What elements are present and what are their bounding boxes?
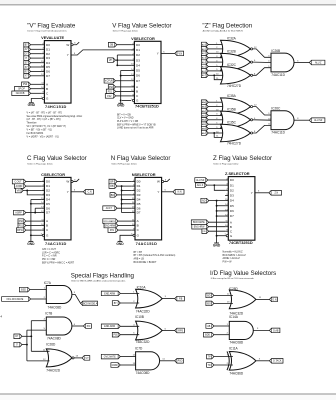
svg-text:D0: D0	[137, 180, 141, 184]
svg-text:ISO: ISO	[207, 303, 211, 305]
net tag AL4	[201, 60, 208, 65]
net tag ALU.NZ	[309, 118, 325, 123]
svg-text:C/R = C.OUT: C/R = C.OUT	[42, 249, 56, 251]
svg-text:74AC151D: 74AC151D	[136, 241, 158, 246]
svg-text:BT = BT: BT = BT	[134, 252, 143, 254]
wire	[209, 226, 226, 228]
wire bus	[121, 186, 123, 213]
net tag ENG.4RW	[192, 224, 209, 229]
wire	[117, 54, 131, 56]
wire	[117, 185, 132, 187]
wire unused input bus to ground	[120, 70, 122, 102]
svg-text:B: B	[137, 224, 139, 228]
net tag FFG.W/O.MATE	[2, 297, 31, 302]
svg-text:D7: D7	[136, 79, 140, 83]
NOR gate IC35C 74HC27D	[221, 121, 253, 146]
wire	[23, 190, 41, 192]
svg-text:FS0: FS0	[19, 221, 24, 223]
wire	[31, 62, 42, 64]
IC NSELECTOR 74AC151D	[131, 172, 161, 246]
junction	[26, 344, 28, 346]
junction	[213, 132, 215, 134]
svg-text:IC26B: IC26B	[271, 49, 280, 53]
wire	[31, 70, 42, 72]
svg-text:ARNE = ALUA.Z: ARNE = ALUA.Z	[223, 257, 241, 260]
wire output pin 6	[72, 325, 84, 327]
svg-text:Y: Y	[157, 52, 159, 56]
svg-text:IC28D: IC28D	[229, 287, 239, 291]
net tag Z.N	[269, 191, 282, 196]
junction	[26, 190, 28, 192]
svg-text:END.4RW: END.4RW	[105, 225, 116, 227]
net tag AL1	[201, 47, 208, 52]
wire	[121, 69, 132, 71]
svg-text:BP: BP	[110, 181, 114, 183]
wire	[26, 185, 41, 187]
wire	[217, 210, 226, 212]
net tag V.CPU6	[104, 78, 115, 83]
junction	[120, 99, 122, 101]
svg-text:Normally = ALUN.Z: Normally = ALUN.Z	[223, 251, 244, 254]
net tag D.AB	[269, 328, 280, 333]
svg-text:D7: D7	[230, 214, 234, 218]
svg-text:D0: D0	[230, 178, 234, 182]
net tag ALU.NZ	[195, 178, 208, 183]
svg-text:Y: Y	[67, 190, 69, 194]
wire	[214, 185, 225, 190]
net tag P.IN	[202, 229, 209, 234]
svg-text:BIT = V = DB: BIT = V = DB	[117, 114, 131, 116]
NOR gate IC32A 74HC27D	[221, 37, 253, 62]
svg-text:D3: D3	[137, 193, 141, 197]
wire	[31, 99, 42, 103]
svg-text:74CBT3251D: 74CBT3251D	[135, 104, 159, 109]
wire	[294, 119, 309, 121]
junction	[30, 335, 32, 337]
junction	[216, 205, 218, 207]
wire	[208, 57, 223, 59]
svg-text:Select N Flag Logic below: Select N Flag Logic below	[111, 162, 137, 165]
svg-text:Derive V flag result from Acc/: Derive V flag result from Acc/parameters	[27, 29, 67, 32]
svg-text:D0: D0	[136, 43, 140, 47]
net tag BT	[112, 301, 120, 306]
wire	[31, 234, 42, 236]
net tag FS0	[18, 219, 26, 224]
svg-text:BSD: BSD	[21, 289, 26, 291]
junction	[116, 64, 118, 66]
svg-text:VR: VR	[17, 190, 21, 192]
junction	[30, 234, 32, 236]
svg-text:74AC08D: 74AC08D	[48, 305, 63, 309]
wire	[214, 133, 223, 137]
svg-text:NA.DCB: NA.DCB	[16, 92, 25, 95]
net tag P.D	[83, 324, 91, 329]
wire	[26, 330, 28, 361]
svg-text:IC35B: IC35B	[227, 107, 236, 111]
junction	[121, 190, 123, 192]
svg-text:TD: TD	[208, 365, 211, 367]
wire	[120, 325, 139, 327]
svg-text:74AC02D: 74AC02D	[46, 368, 61, 372]
wire	[214, 356, 233, 358]
net tag RB	[109, 184, 117, 189]
wire	[115, 80, 131, 82]
svg-text:D1: D1	[136, 48, 140, 52]
svg-text:D3: D3	[46, 56, 50, 60]
wire	[209, 230, 226, 232]
XOR gate IC11A 74AC86D	[227, 346, 256, 375]
wire	[116, 55, 118, 65]
wire	[22, 344, 27, 346]
svg-text:D5: D5	[137, 202, 141, 206]
net tag END.4RW	[104, 223, 118, 228]
net tag P.B	[175, 296, 185, 301]
wire W output pin 6	[162, 181, 164, 183]
svg-text:CWR: CWR	[112, 365, 118, 367]
wire	[208, 44, 223, 46]
wire	[214, 75, 223, 79]
wire Y output pin 5 to VSELECTOR D1	[71, 50, 134, 55]
net tag BSD	[19, 287, 30, 292]
net tag ACC7	[103, 206, 117, 211]
svg-text:PS0: PS0	[23, 84, 28, 86]
svg-text:IC11A: IC11A	[229, 346, 238, 350]
wire	[122, 212, 132, 214]
net tag D.TACK	[269, 359, 283, 364]
svg-text:N Flag Value Selector: N Flag Value Selector	[111, 155, 171, 162]
svg-text:W: W	[66, 43, 69, 47]
svg-text:BD: BD	[111, 195, 115, 197]
junction	[213, 74, 215, 76]
AND gate IC7D 74AC08D	[135, 346, 160, 375]
wire output pin 6	[162, 330, 175, 332]
net tag RPS	[175, 328, 185, 333]
wire	[120, 235, 133, 241]
wire output pin 3	[72, 295, 81, 304]
svg-text:IC32A: IC32A	[227, 37, 237, 41]
wire	[217, 205, 226, 207]
net tag PSO	[175, 359, 184, 364]
svg-text:BSF & PFW = ARNE V = YT SOB YB: BSF & PFW = ARNE V = YT SOB YB	[117, 123, 156, 126]
net tag N.N	[173, 190, 184, 195]
wire	[120, 334, 139, 336]
svg-text:Y: Y	[251, 191, 253, 195]
wire	[122, 203, 132, 205]
svg-text:Y: Y	[67, 53, 69, 57]
svg-text:D7: D7	[46, 211, 50, 215]
wire	[30, 321, 32, 352]
svg-text:IC10A: IC10A	[137, 285, 147, 289]
net tag S7	[24, 60, 31, 65]
wire	[22, 335, 31, 337]
OR gate IC10A 74AC32D	[136, 285, 163, 313]
wire	[117, 64, 131, 66]
net tag ALU.Z	[196, 183, 207, 188]
svg-text:CLV = V = GND: CLV = V = GND	[117, 118, 134, 120]
svg-text:LAND does not set V as its an: LAND does not set V as its an ARR	[117, 127, 154, 130]
wire	[27, 360, 50, 362]
svg-text:74AC11D: 74AC11D	[271, 131, 285, 135]
svg-text:IC14A: IC14A	[229, 315, 239, 319]
wire	[26, 225, 41, 227]
junction	[216, 210, 218, 212]
net tag RP.W	[16, 228, 25, 233]
svg-text:AGRP: AGRP	[15, 211, 22, 214]
svg-text:Select Z Flag Logic below: Select Z Flag Logic below	[213, 162, 238, 165]
svg-text:V.CPU6: V.CPU6	[105, 81, 114, 83]
svg-text:B: B	[230, 225, 232, 229]
svg-text:Select C Flag Logic below: Select C Flag Logic below	[27, 162, 53, 165]
svg-text:N Bus except for BD or CLD fro: N Bus except for BD or CLD from microcod…	[211, 277, 255, 280]
svg-text:Therefore: Therefore	[27, 122, 38, 125]
junction	[34, 212, 36, 214]
svg-text:74AC11D: 74AC11D	[271, 73, 285, 77]
svg-text:D1: D1	[230, 183, 234, 187]
wire output pin 11	[256, 298, 270, 300]
svg-text:74HC151D: 74HC151D	[45, 104, 67, 109]
wire	[118, 229, 132, 231]
svg-text:BCD for NMOS, ARR and ANC undo: BCD for NMOS, ARR and ANC undocumented o…	[71, 280, 126, 283]
net tag BDD	[204, 332, 214, 337]
svg-text:74AC32D: 74AC32D	[136, 310, 151, 314]
net tag FS2	[105, 94, 115, 99]
junction	[216, 200, 218, 202]
wire	[209, 221, 226, 223]
net tag AL7	[201, 73, 208, 78]
svg-text:See www 6502 org/users/dieter/: See www 6502 org/users/dieter/a/achtung …	[27, 115, 83, 118]
svg-text:P.B: P.B	[113, 335, 117, 337]
OR gate IC28D 74AC32D	[229, 287, 256, 316]
wire	[120, 356, 135, 358]
svg-text:C.OUT: C.OUT	[14, 181, 22, 183]
svg-text:IC35C: IC35C	[227, 121, 237, 125]
net tag OB	[108, 42, 116, 47]
svg-text:D7: D7	[46, 74, 50, 78]
wire	[31, 92, 42, 94]
net tag AORD	[14, 184, 25, 189]
svg-text:BCD.MATE: BCD.MATE	[193, 221, 205, 224]
svg-text:74CBT3251D: 74CBT3251D	[229, 240, 253, 245]
net tag OVC.MATE	[101, 354, 120, 359]
net tag I7	[24, 56, 31, 61]
wire output pin 3	[256, 360, 270, 362]
wire	[208, 101, 223, 103]
wire	[217, 235, 227, 237]
net tag VP	[108, 58, 116, 63]
net tag BD	[206, 293, 214, 298]
svg-text:FS1: FS1	[19, 225, 24, 227]
wire	[253, 68, 271, 76]
svg-text:D6: D6	[46, 206, 50, 210]
wire	[214, 325, 229, 327]
net tag FS1	[18, 223, 26, 228]
wire	[208, 119, 223, 121]
svg-text:74AC08D: 74AC08D	[47, 337, 62, 341]
svg-text:BCD.MODE = BCDFT: BCD.MODE = BCDFT	[134, 262, 158, 264]
svg-text:BD: BD	[207, 295, 211, 297]
junction	[121, 199, 123, 201]
svg-text:FS0: FS0	[109, 87, 114, 89]
net tag AL6	[201, 69, 208, 74]
svg-text:D5: D5	[46, 65, 50, 69]
wire	[217, 215, 226, 217]
svg-text:LSR = C = ADRC: LSR = C = ADRC	[42, 251, 60, 254]
wire W output pin 6	[71, 44, 73, 46]
net tag A7	[24, 47, 31, 52]
wire	[31, 350, 49, 352]
svg-text:D6: D6	[137, 206, 141, 210]
svg-text:ALUNZ normally, ALUA.Z for BCD: ALUNZ normally, ALUA.Z for BCD NMOS	[203, 29, 244, 32]
wire	[253, 119, 271, 121]
svg-text:RB: RB	[110, 186, 114, 188]
svg-text:V = (A7 · B7 · R7) + (A7 · B7: V = (A7 · B7 · R7) + (A7 · B7 · R7)	[27, 111, 63, 114]
svg-text:P.W = W: P.W = W	[223, 262, 233, 264]
svg-text:SP.OP: SP.OP	[18, 89, 25, 91]
svg-text:IC7A: IC7A	[44, 281, 52, 285]
svg-text:RPS: RPS	[178, 330, 183, 332]
AND gate IC26C 74AC11D	[271, 107, 294, 135]
net tag ALU.Z	[309, 60, 325, 65]
svg-text:RP.W: RP.W	[17, 230, 24, 232]
wire	[208, 74, 223, 76]
net tag NA.DCB	[12, 91, 31, 96]
svg-text:D3: D3	[230, 194, 234, 198]
wire	[31, 48, 42, 50]
svg-text:VSELECTOR: VSELECTOR	[131, 36, 155, 41]
svg-text:D5: D5	[46, 202, 50, 206]
svg-text:D4: D4	[136, 63, 140, 67]
net tag AA4	[201, 118, 208, 123]
AND gate IC7A 74AC08D	[44, 281, 72, 309]
svg-text:GND: GND	[213, 243, 221, 247]
wire	[122, 190, 132, 192]
IC VSELECTOR 74CBT3251D	[131, 36, 161, 109]
wire	[208, 61, 223, 63]
wire	[26, 229, 41, 231]
wire output pin 11	[160, 360, 175, 362]
OR gate IC10B 74AC32D	[135, 315, 162, 344]
wire	[214, 294, 233, 296]
svg-text:V = (B7 · V0) + (B7 · V1): V = (B7 · V0) + (B7 · V1)	[27, 130, 53, 132]
wire	[31, 75, 42, 77]
svg-text:FS2: FS2	[107, 96, 112, 98]
svg-text:V0 = (R7 NOR Y7), V1 = (R7 AND: V0 = (R7 NOR Y7), V1 = (R7 AND Y7)	[27, 125, 67, 128]
svg-text:ENG.4RW: ENG.4RW	[194, 227, 206, 229]
wire	[208, 66, 223, 68]
svg-text:8210.MATE: 8210.MATE	[104, 220, 116, 223]
wire	[118, 225, 132, 227]
wire	[208, 52, 223, 54]
svg-text:P.IN: P.IN	[110, 230, 115, 232]
svg-text:D0: D0	[46, 180, 50, 184]
net tag AL0	[201, 42, 208, 47]
svg-text:PLP & RTI = V = DB: PLP & RTI = V = DB	[117, 121, 138, 123]
svg-text:ND: ND	[202, 200, 206, 202]
NOR gate IC32B 74HC27D	[221, 50, 253, 75]
wire	[115, 59, 131, 61]
wire W output pin 6	[71, 181, 73, 183]
AND gate IC14A 74AC08D	[229, 315, 253, 345]
svg-text:VP: VP	[109, 60, 113, 62]
svg-text:74AC86D: 74AC86D	[229, 371, 244, 375]
net tag PS0	[22, 82, 31, 87]
junction	[216, 235, 218, 237]
svg-text:GND: GND	[27, 242, 35, 246]
wire	[34, 208, 36, 212]
wire	[208, 106, 223, 108]
wire	[253, 61, 271, 63]
NOR gate IC35A 74HC27D	[221, 94, 253, 119]
svg-text:C.N: C.N	[88, 192, 92, 194]
wire Y output pin 5	[255, 192, 269, 194]
wire	[31, 203, 41, 205]
ground	[27, 241, 35, 245]
net tag V.N	[175, 51, 184, 56]
svg-text:D7: D7	[137, 211, 141, 215]
IC Z.SELECTOR 74CBT3251D	[224, 171, 254, 245]
junction	[213, 184, 215, 186]
wire	[208, 114, 223, 116]
wire	[209, 200, 225, 202]
svg-text:D2: D2	[230, 188, 234, 192]
svg-text:"V" Flag Evaluate: "V" Flag Evaluate	[27, 22, 76, 29]
wire	[120, 292, 139, 294]
net tag ND	[201, 198, 209, 203]
svg-text:W: W	[157, 180, 160, 184]
wire	[31, 320, 46, 322]
net tag Y7	[24, 74, 31, 79]
wire	[117, 44, 131, 46]
svg-text:VEVALUATE: VEVALUATE	[41, 35, 64, 40]
net tag AA3	[201, 113, 208, 118]
wire	[208, 123, 223, 125]
svg-text:P.IN: P.IN	[203, 231, 206, 233]
svg-text:PSO: PSO	[178, 361, 183, 363]
NOR gate IC26D 74AC02D	[46, 343, 74, 373]
svg-text:D1: D1	[46, 184, 50, 188]
svg-text:D5: D5	[230, 204, 234, 208]
svg-text:GND: GND	[116, 242, 124, 246]
svg-text:BSF & PFW = HINC C = ADRT: BSF & PFW = HINC C = ADRT	[42, 261, 75, 264]
svg-text:END.ARW: END.ARW	[104, 325, 116, 328]
svg-text:IC26D: IC26D	[46, 343, 56, 347]
AND gate IC26B 74AC11D	[271, 49, 294, 77]
wire	[294, 62, 309, 64]
wire output pin 3	[162, 298, 175, 300]
wire	[27, 191, 41, 195]
svg-text:ALU.Z: ALU.Z	[315, 61, 322, 64]
svg-text:74AC08D: 74AC08D	[136, 371, 151, 375]
wire	[31, 53, 42, 55]
svg-text:IC10B: IC10B	[135, 315, 144, 319]
wire	[214, 302, 233, 304]
wire	[27, 329, 46, 331]
svg-text:IC32B: IC32B	[227, 50, 236, 54]
wire	[31, 83, 42, 85]
svg-text:GND: GND	[117, 104, 125, 108]
junction	[121, 185, 123, 187]
net tag AL2	[201, 51, 208, 56]
net tag C.N	[83, 190, 93, 195]
junction	[121, 203, 123, 205]
wire	[31, 298, 47, 300]
svg-text:D5: D5	[136, 69, 140, 73]
wire	[122, 99, 131, 101]
svg-text:ACC7: ACC7	[106, 207, 113, 210]
net tag D.N	[269, 297, 277, 302]
svg-text:Z.SELECTOR: Z.SELECTOR	[225, 171, 250, 176]
net tag P.B	[112, 332, 120, 337]
